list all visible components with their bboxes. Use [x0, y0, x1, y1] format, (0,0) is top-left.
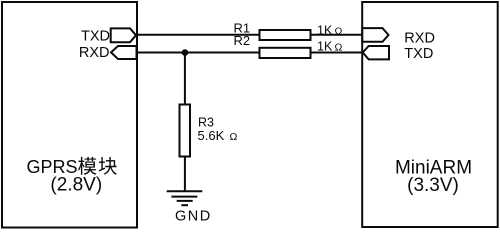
module box GPRS (2.8V) — [2, 2, 137, 228]
value label 1K ohm (R1) — [317, 23, 343, 37]
svg-text:RXD: RXD — [404, 30, 435, 46]
resistor R2 — [260, 48, 311, 58]
wire node A to R3 — [184, 53, 186, 106]
svg-text:TXD: TXD — [81, 28, 110, 44]
wire R1 to RXD(MiniARM) — [310, 34, 363, 36]
wire RXD(GPRS) to R2 — [135, 52, 260, 54]
svg-text:(3.3V): (3.3V) — [407, 175, 459, 196]
label GPRS module name — [27, 157, 117, 177]
value label 1K ohm (R2) — [317, 40, 343, 54]
ground — [167, 191, 203, 205]
resistor R3 — [180, 105, 191, 157]
value label 5.6K ohm (R3) — [198, 128, 238, 143]
svg-text:TXD: TXD — [404, 46, 433, 62]
svg-text:(2.8V): (2.8V) — [50, 175, 102, 196]
svg-text:Ω: Ω — [230, 131, 238, 143]
svg-text:Ω: Ω — [335, 25, 343, 37]
resistor R1 — [260, 30, 311, 40]
wire TXD(GPRS) to R1 — [135, 34, 260, 36]
wire R3 to ground — [184, 156, 186, 192]
svg-text:1K: 1K — [317, 40, 333, 54]
svg-text:GND: GND — [175, 209, 212, 225]
pin RXD (MiniARM) connector — [362, 28, 388, 42]
svg-text:1K: 1K — [317, 23, 333, 37]
pin TXD (MiniARM) connector — [363, 46, 389, 59]
svg-text:Ω: Ω — [335, 42, 343, 54]
pin TXD (GPRS) connector — [111, 28, 136, 42]
svg-text:R2: R2 — [234, 33, 251, 48]
pin RXD (GPRS) connector — [111, 46, 137, 59]
module box MiniARM (3.3V) — [362, 2, 498, 227]
node A junction dot — [182, 49, 189, 56]
svg-text:RXD: RXD — [79, 45, 110, 61]
wire R2 to TXD(MiniARM) — [310, 52, 363, 54]
svg-text:5.6K: 5.6K — [198, 128, 225, 143]
